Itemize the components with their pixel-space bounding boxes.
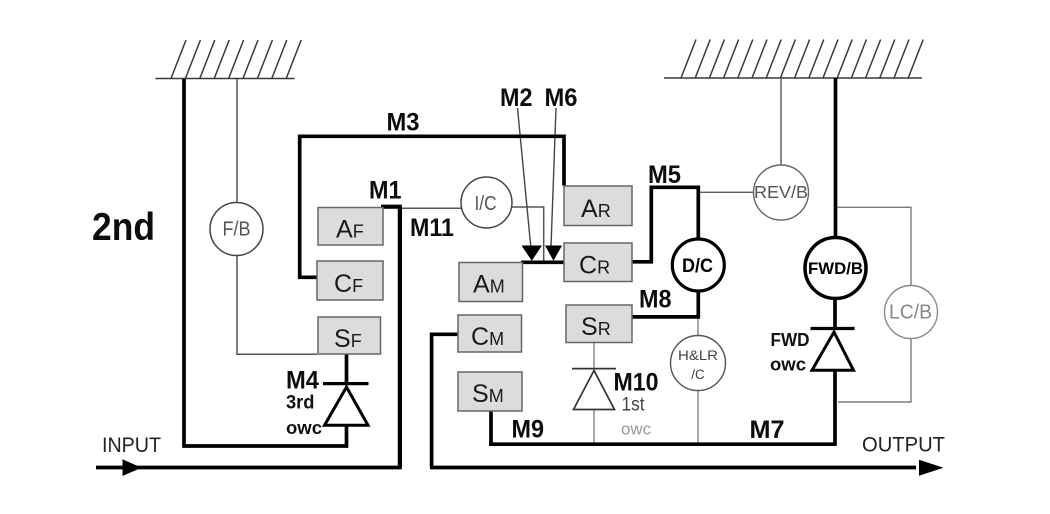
svg-text:owc: owc	[621, 420, 651, 439]
svg-text:M1: M1	[369, 177, 402, 205]
svg-text:INPUT: INPUT	[102, 434, 161, 457]
svg-text:2nd: 2nd	[92, 206, 155, 249]
svg-text:M11: M11	[410, 214, 454, 242]
svg-text:/C: /C	[691, 367, 705, 382]
svg-text:M3: M3	[387, 109, 420, 137]
svg-text:D/C: D/C	[682, 256, 713, 277]
svg-text:owc: owc	[286, 418, 322, 438]
svg-text:M6: M6	[545, 84, 578, 112]
svg-text:M2: M2	[500, 84, 533, 112]
svg-text:F/B: F/B	[223, 219, 251, 241]
svg-text:M10: M10	[614, 369, 659, 397]
svg-text:M4: M4	[286, 367, 319, 395]
svg-text:3rd: 3rd	[286, 393, 315, 414]
svg-text:FWD/B: FWD/B	[808, 260, 863, 278]
svg-text:M9: M9	[512, 416, 545, 444]
svg-text:REV/B: REV/B	[754, 182, 808, 202]
svg-text:owc: owc	[770, 355, 806, 375]
svg-text:M7: M7	[750, 416, 785, 444]
svg-text:M5: M5	[648, 161, 681, 189]
svg-text:H&LR: H&LR	[678, 348, 718, 363]
svg-text:1st: 1st	[622, 395, 646, 416]
svg-text:M8: M8	[639, 286, 672, 314]
svg-text:LC/B: LC/B	[889, 302, 932, 324]
svg-text:OUTPUT: OUTPUT	[862, 433, 945, 457]
svg-text:I/C: I/C	[475, 193, 497, 215]
svg-text:FWD: FWD	[771, 329, 810, 350]
